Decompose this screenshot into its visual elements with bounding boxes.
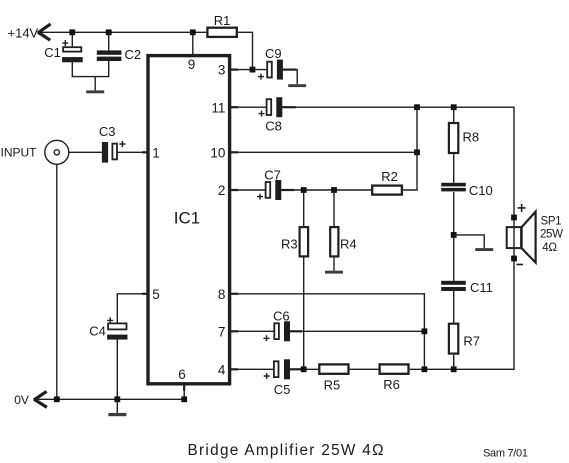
connector J1 input socket — [45, 140, 69, 164]
svg-text:25W: 25W — [540, 228, 563, 240]
wire pin 2 to C7 — [230, 189, 265, 191]
wire zobel node to ground — [454, 235, 485, 248]
wire C11 to R7 — [453, 290, 455, 323]
node dot R7 / output rail — [451, 366, 457, 372]
svg-text:SP1: SP1 — [541, 216, 562, 228]
wire pin 7 to C6 — [230, 330, 274, 332]
svg-text:C7: C7 — [264, 167, 281, 182]
net 0V arrow symbol — [34, 391, 47, 407]
svg-text:8: 8 — [218, 287, 226, 302]
ground C9 — [288, 84, 306, 87]
svg-text:R2: R2 — [381, 169, 398, 184]
wire R4 top lead — [333, 190, 335, 226]
speaker SP1 body — [507, 227, 521, 248]
ground C1 C2 — [86, 90, 104, 93]
capacitor C7 — [266, 180, 282, 200]
svg-text:C2: C2 — [124, 47, 141, 62]
wire pin 6 lead — [183, 384, 185, 400]
wire stub to ground of C1 C2 — [94, 77, 96, 91]
node dot 0V / input sleeve — [54, 396, 60, 402]
ground R4 — [325, 271, 343, 274]
IC U1 body IC1 — [148, 56, 230, 384]
capacitor C9 — [267, 60, 283, 80]
svg-text:10: 10 — [210, 145, 225, 160]
wire 0V rail — [35, 398, 185, 400]
resistor R4 — [330, 227, 338, 256]
resistor R8 — [449, 123, 458, 153]
wire R8 to C10 — [453, 154, 455, 183]
svg-text:INPUT: INPUT — [1, 145, 38, 159]
node dot R4 branch — [331, 187, 337, 193]
node dot R3 branch — [301, 187, 307, 193]
polarity plus C5 — [264, 373, 270, 379]
wire R3 bottom to output rail — [303, 258, 305, 370]
svg-text:2: 2 — [218, 183, 226, 198]
node dot 0V / pin6 — [181, 396, 187, 402]
capacitor C8 — [267, 97, 283, 117]
wire R7 bottom lead — [453, 355, 455, 370]
wire C2 top lead — [108, 32, 110, 50]
svg-text:Bridge Amplifier 25W 4Ω: Bridge Amplifier 25W 4Ω — [188, 442, 384, 459]
polarity plus speaker — [518, 204, 526, 212]
pin stub 2 — [230, 189, 239, 191]
node dot pin3/R1 branch — [250, 67, 256, 73]
resistor R6 — [380, 364, 409, 373]
wire R8 top lead — [453, 107, 455, 122]
pin stub 7 — [230, 330, 239, 332]
wire pin 4 to C5 — [230, 368, 274, 370]
wire R4 to ground — [333, 258, 335, 271]
svg-text:1: 1 — [152, 145, 160, 160]
svg-text:5: 5 — [152, 287, 160, 302]
node dot pin10 / feedback vertical — [414, 149, 420, 155]
net +14V arrow symbol — [38, 24, 51, 40]
pin stub 1 — [142, 151, 148, 153]
resistor R7 — [449, 324, 458, 354]
capacitor C10 — [441, 183, 466, 192]
pin stub 4 — [230, 368, 239, 370]
wire stub C8 output — [282, 106, 296, 108]
wire pin 10 — [230, 151, 417, 153]
wire R3 top lead — [303, 190, 305, 226]
wire C5 to R5 — [290, 368, 318, 370]
wire C1 bottom to C2 bottom — [72, 61, 108, 77]
wire pin 8 to bridge vertical — [230, 294, 425, 370]
wire stub C6 output — [290, 330, 302, 332]
node dot rail/C1 — [69, 29, 75, 35]
wire stub C5 output — [290, 368, 302, 370]
svg-text:C11: C11 — [470, 280, 493, 295]
svg-text:11: 11 — [211, 100, 225, 115]
wire pin 9 lead — [192, 32, 194, 55]
svg-text:C10: C10 — [469, 183, 493, 198]
svg-text:R6: R6 — [383, 377, 400, 392]
svg-text:R3: R3 — [281, 236, 298, 251]
node dot C6 / bridge vertical — [422, 328, 428, 334]
wire C9 to ground — [283, 70, 297, 85]
polarity plus C6 — [264, 335, 270, 341]
svg-text:C6: C6 — [273, 309, 290, 324]
speaker SP1 cone — [522, 212, 536, 263]
node dot speaker plus terminal — [511, 215, 517, 221]
wire feedback vertical to R2 — [403, 107, 417, 190]
svg-text:C8: C8 — [265, 119, 282, 134]
svg-text:4: 4 — [218, 362, 226, 377]
capacitor C5 — [274, 359, 290, 379]
resistor R1 — [207, 28, 236, 37]
pin stub 10 — [230, 151, 239, 153]
svg-text:0V: 0V — [14, 393, 29, 407]
svg-text:C3: C3 — [99, 124, 116, 139]
wire C10 to C11 — [453, 192, 455, 281]
node dot zobel ground branch — [451, 232, 457, 238]
capacitor C11 — [441, 281, 466, 291]
node dot R3 / output rail — [301, 366, 307, 372]
svg-text:IC1: IC1 — [174, 208, 200, 227]
svg-text:+14V: +14V — [8, 26, 39, 41]
capacitor C6 — [274, 321, 290, 341]
wire stub to main ground — [116, 399, 118, 413]
pin stub 11 — [230, 106, 239, 108]
wire C4 to 0V rail — [116, 340, 118, 400]
svg-text:7: 7 — [218, 324, 226, 339]
polarity plus C7 — [257, 194, 263, 200]
node dot bridge vertical / output rail — [422, 366, 428, 372]
polarity plus C3 — [119, 141, 125, 147]
wire R5 to R6 — [350, 368, 379, 370]
pin stub 6 — [183, 384, 185, 391]
wire R1 right to pin3 node — [238, 32, 253, 69]
svg-text:9: 9 — [188, 57, 196, 72]
svg-text:C1: C1 — [44, 45, 61, 60]
node dot speaker minus terminal — [511, 256, 517, 262]
svg-text:6: 6 — [178, 367, 186, 382]
capacitor C3 — [102, 142, 117, 163]
wire C8 to speaker plus rail — [282, 107, 514, 258]
resistor R5 — [319, 364, 348, 373]
ground main — [108, 413, 126, 416]
polarity plus C1 — [62, 40, 68, 46]
svg-text:R4: R4 — [340, 236, 357, 251]
node dot pin11 wire / R8 branch — [451, 104, 457, 110]
wire input sleeve to 0V rail — [56, 164, 58, 399]
wire input to C3 — [69, 151, 102, 153]
polarity plus C4 — [107, 317, 113, 323]
wire pin 3 to C9 — [230, 69, 267, 71]
resistor R2 — [372, 186, 402, 195]
wire R6 to speaker minus rail — [410, 259, 514, 370]
wire stub C9 output — [283, 68, 297, 70]
svg-text:R5: R5 — [324, 377, 341, 392]
pin stub 5 — [142, 293, 148, 295]
resistor R3 — [300, 227, 309, 256]
wire +14V rail — [39, 31, 207, 33]
svg-text:3: 3 — [218, 63, 226, 78]
node dot pin11 wire / feedback vertical — [414, 104, 420, 110]
polarity minus speaker — [517, 264, 524, 266]
wire C1 top lead — [71, 32, 73, 46]
pin stub 3 — [230, 68, 239, 70]
svg-text:R7: R7 — [463, 333, 480, 348]
capacitor C2 — [97, 50, 122, 61]
wire pin 11 to C8 — [230, 106, 266, 108]
ground zobel — [475, 248, 493, 251]
svg-text:R1: R1 — [214, 13, 231, 28]
wire C7 to R2 — [281, 189, 371, 191]
capacitor C1 — [62, 47, 83, 62]
node dot 0V / C4 — [114, 396, 120, 402]
polarity plus C8 — [259, 111, 265, 117]
svg-text:4Ω: 4Ω — [542, 242, 557, 254]
svg-text:C9: C9 — [265, 46, 282, 61]
wire C3 to pin 1 — [118, 151, 148, 153]
polarity plus C9 — [258, 74, 264, 80]
svg-text:Sam 7/01: Sam 7/01 — [483, 448, 528, 460]
pin stub 8 — [230, 293, 239, 295]
svg-text:R8: R8 — [463, 129, 480, 144]
svg-text:C4: C4 — [89, 323, 106, 338]
wire stub C7 output — [281, 189, 294, 191]
wire C6 to bridge vertical — [290, 330, 424, 332]
svg-text:C5: C5 — [274, 382, 291, 397]
wire pin 5 to C4 — [117, 294, 148, 323]
capacitor C4 — [107, 323, 127, 339]
node dot rail/pin9 — [190, 29, 196, 35]
node dot rail/C2 — [106, 29, 112, 35]
